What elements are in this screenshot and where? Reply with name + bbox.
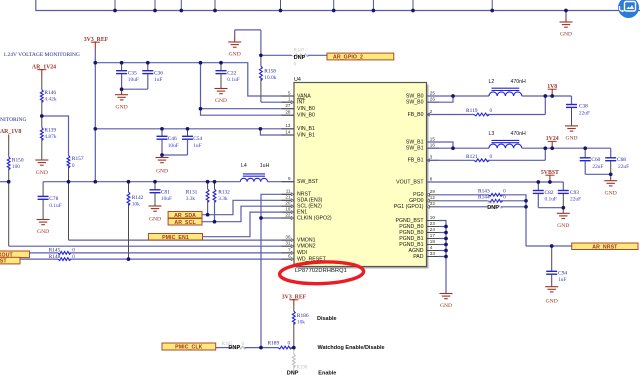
svg-text:3.3k: 3.3k xyxy=(186,196,196,202)
svg-text:GND: GND xyxy=(156,169,168,175)
svg-text:U4: U4 xyxy=(294,77,301,83)
svg-text:C38: C38 xyxy=(579,104,588,110)
svg-text:10uF: 10uF xyxy=(168,143,179,149)
svg-text:R121: R121 xyxy=(466,154,478,160)
svg-text:16: 16 xyxy=(430,143,436,148)
svg-text:VOUT_BST: VOUT_BST xyxy=(396,179,424,185)
svg-text:3.3k: 3.3k xyxy=(218,196,228,202)
svg-text:GND: GND xyxy=(36,170,48,176)
svg-text:R119: R119 xyxy=(466,108,478,114)
svg-text:1: 1 xyxy=(288,97,291,102)
svg-text:VIN_B1: VIN_B1 xyxy=(297,126,315,132)
svg-text:27: 27 xyxy=(285,103,291,108)
svg-text:0.1uF: 0.1uF xyxy=(545,197,557,203)
svg-text:1uF: 1uF xyxy=(154,77,162,83)
svg-text:AR_1V8: AR_1V8 xyxy=(0,129,21,135)
svg-text:10uF: 10uF xyxy=(128,77,139,83)
svg-text:PG1 (GPO1): PG1 (GPO1) xyxy=(394,204,424,210)
svg-text:0: 0 xyxy=(72,248,75,254)
svg-text:R158: R158 xyxy=(264,68,276,74)
svg-text:C46: C46 xyxy=(168,136,177,142)
svg-text:SW_B0: SW_B0 xyxy=(406,100,424,106)
svg-text:7: 7 xyxy=(288,247,291,252)
svg-text:GND: GND xyxy=(215,98,227,104)
svg-text:18: 18 xyxy=(430,239,436,244)
svg-text:VIN_B1: VIN_B1 xyxy=(297,132,315,138)
svg-text:22uF: 22uF xyxy=(570,197,581,203)
svg-text:C93: C93 xyxy=(570,190,579,196)
svg-text:SW_B1: SW_B1 xyxy=(406,146,424,152)
svg-text:4: 4 xyxy=(430,245,433,250)
svg-text:10uF: 10uF xyxy=(161,196,172,202)
svg-text:470nH: 470nH xyxy=(511,131,527,137)
svg-text:CLKIN (GPO2): CLKIN (GPO2) xyxy=(297,215,332,221)
svg-text:22: 22 xyxy=(285,212,291,217)
svg-text:1uF: 1uF xyxy=(558,277,566,283)
svg-text:WDI: WDI xyxy=(297,250,307,256)
svg-text:14: 14 xyxy=(285,129,291,134)
svg-text:0: 0 xyxy=(490,154,493,160)
svg-text:C35: C35 xyxy=(128,71,137,77)
svg-text:AR_NRST: AR_NRST xyxy=(592,244,618,250)
svg-text:33: 33 xyxy=(430,251,436,256)
svg-text:LP87702DRHBRQ1: LP87702DRHBRQ1 xyxy=(295,268,347,274)
svg-text:R132: R132 xyxy=(218,189,230,195)
svg-text:RST: RST xyxy=(0,259,7,265)
svg-text:11: 11 xyxy=(286,189,291,194)
svg-text:C54: C54 xyxy=(193,136,202,142)
svg-text:22uF: 22uF xyxy=(618,164,629,170)
svg-text:22uF: 22uF xyxy=(592,164,603,170)
svg-text:VMON1: VMON1 xyxy=(297,237,316,243)
svg-text:C22: C22 xyxy=(227,71,236,77)
svg-text:VMON2: VMON2 xyxy=(297,244,316,250)
svg-text:22uF: 22uF xyxy=(579,110,590,116)
svg-text:Disable: Disable xyxy=(317,316,337,322)
svg-text:GND: GND xyxy=(149,217,161,223)
svg-text:1uH: 1uH xyxy=(260,163,270,169)
svg-text:C78: C78 xyxy=(49,196,58,202)
svg-text:GND: GND xyxy=(229,52,241,58)
svg-text:Watchdog Enable/Disable: Watchdog Enable/Disable xyxy=(318,345,385,351)
svg-text:C82: C82 xyxy=(545,190,554,196)
svg-text:0: 0 xyxy=(72,163,75,169)
svg-text:0.1uF: 0.1uF xyxy=(227,77,239,83)
svg-text:AR_SCL: AR_SCL xyxy=(174,220,196,226)
svg-text:R144: R144 xyxy=(478,195,490,201)
svg-text:R148: R148 xyxy=(49,254,61,260)
svg-text:DNP: DNP xyxy=(487,205,499,211)
svg-text:GND: GND xyxy=(37,229,49,235)
svg-text:PMIC_CLK: PMIC_CLK xyxy=(175,345,202,351)
svg-text:0: 0 xyxy=(72,254,75,260)
svg-text:GND: GND xyxy=(116,104,128,110)
svg-text:31: 31 xyxy=(285,241,291,246)
svg-text:13: 13 xyxy=(285,123,291,128)
svg-text:GND: GND xyxy=(565,136,577,142)
svg-text:L2: L2 xyxy=(489,79,495,85)
svg-text:0: 0 xyxy=(503,195,506,201)
svg-text:8: 8 xyxy=(430,176,433,181)
svg-text:10.0k: 10.0k xyxy=(264,75,276,81)
svg-text:R146: R146 xyxy=(44,90,56,96)
svg-text:DNP: DNP xyxy=(287,371,299,375)
svg-text:4.42k: 4.42k xyxy=(44,96,56,102)
svg-text:24: 24 xyxy=(430,227,436,232)
svg-text:L4: L4 xyxy=(241,163,247,169)
svg-text:SW_B1: SW_B1 xyxy=(406,139,424,145)
svg-text:SW_B0: SW_B0 xyxy=(406,93,424,99)
svg-text:15: 15 xyxy=(430,136,436,141)
svg-text:R142: R142 xyxy=(132,195,144,201)
svg-text:PMIC_EN1: PMIC_EN1 xyxy=(162,235,189,241)
svg-text:9: 9 xyxy=(288,176,291,181)
svg-text:Enable: Enable xyxy=(318,371,336,375)
svg-text:25: 25 xyxy=(430,90,436,95)
svg-text:21: 21 xyxy=(285,195,291,200)
svg-text:0.1uF: 0.1uF xyxy=(49,203,61,209)
svg-text:17: 17 xyxy=(430,233,436,238)
svg-text:INT: INT xyxy=(297,100,306,106)
svg-text:FB_B1: FB_B1 xyxy=(408,158,424,164)
svg-text:SW_BST: SW_BST xyxy=(297,179,319,185)
svg-text:0: 0 xyxy=(288,341,291,347)
svg-text:28: 28 xyxy=(285,110,291,115)
svg-text:100: 100 xyxy=(12,164,20,170)
svg-text:GND: GND xyxy=(440,303,452,309)
svg-text:DNP: DNP xyxy=(228,345,240,351)
svg-text:470nH: 470nH xyxy=(511,79,527,85)
svg-text:GND: GND xyxy=(605,190,617,196)
svg-text:L3: L3 xyxy=(489,131,495,137)
svg-text:AR_GPIO_2: AR_GPIO_2 xyxy=(333,55,363,61)
svg-text:R139: R139 xyxy=(44,128,56,134)
svg-text:C36: C36 xyxy=(154,71,163,77)
svg-text:23: 23 xyxy=(430,221,436,226)
svg-text:26: 26 xyxy=(430,97,436,102)
svg-text:30: 30 xyxy=(285,235,291,240)
svg-text:C94: C94 xyxy=(558,270,567,276)
svg-text:5: 5 xyxy=(288,90,291,95)
svg-text:AR_SDA: AR_SDA xyxy=(174,213,196,219)
svg-text:R157: R157 xyxy=(72,156,84,162)
svg-text:R147: R147 xyxy=(294,49,305,54)
svg-text:R145: R145 xyxy=(49,248,61,254)
svg-text:19: 19 xyxy=(285,207,291,212)
svg-text:PAD: PAD xyxy=(413,254,424,260)
svg-text:1uF: 1uF xyxy=(193,143,201,149)
svg-text:R186: R186 xyxy=(297,313,309,319)
svg-text:6: 6 xyxy=(288,254,291,259)
svg-text:R131: R131 xyxy=(186,189,198,195)
svg-text:3: 3 xyxy=(430,155,433,160)
svg-text:VIN_B0: VIN_B0 xyxy=(297,113,315,119)
svg-text:0: 0 xyxy=(490,108,493,114)
svg-text:C60: C60 xyxy=(591,157,600,163)
svg-text:FB_B0: FB_B0 xyxy=(408,112,424,118)
svg-text:GND: GND xyxy=(557,223,569,229)
svg-text:4.87k: 4.87k xyxy=(44,134,56,140)
svg-text:GND: GND xyxy=(546,299,558,305)
svg-text:1.24V VOLTAGE MONITORING: 1.24V VOLTAGE MONITORING xyxy=(3,52,80,58)
svg-text:C68: C68 xyxy=(617,157,626,163)
svg-text:R189: R189 xyxy=(268,341,280,347)
svg-text:10k: 10k xyxy=(132,202,140,208)
svg-text:DNP: DNP xyxy=(294,55,306,61)
svg-text:10k: 10k xyxy=(297,320,305,326)
svg-text:10: 10 xyxy=(430,215,436,220)
svg-text:VIN_B0: VIN_B0 xyxy=(297,106,315,112)
svg-text:2: 2 xyxy=(430,109,433,114)
svg-text:GND: GND xyxy=(560,32,572,38)
svg-text:C81: C81 xyxy=(161,190,170,196)
svg-text:VANA: VANA xyxy=(297,93,311,99)
svg-text:NITORING: NITORING xyxy=(0,117,27,123)
svg-text:32: 32 xyxy=(430,201,436,206)
svg-text:12: 12 xyxy=(430,195,436,200)
svg-text:20: 20 xyxy=(285,201,291,206)
svg-text:29: 29 xyxy=(430,189,436,194)
svg-text:R150: R150 xyxy=(12,158,24,164)
